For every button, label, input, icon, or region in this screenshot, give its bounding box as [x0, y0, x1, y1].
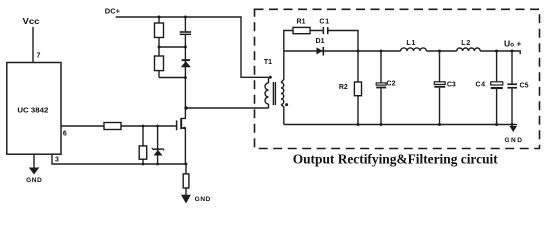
svg-text:D1: D1 [316, 38, 325, 45]
svg-text:C4: C4 [476, 81, 486, 88]
svg-text:UC 3842: UC 3842 [17, 105, 48, 114]
svg-text:GND: GND [26, 177, 42, 184]
svg-text:Output Rectifying&Filtering ci: Output Rectifying&Filtering circuit [293, 151, 499, 166]
svg-text:DC+: DC+ [105, 6, 121, 15]
svg-text:C2: C2 [387, 81, 396, 88]
svg-text:GND: GND [505, 137, 523, 144]
svg-text:6: 6 [63, 131, 67, 138]
svg-text:C1: C1 [319, 19, 330, 26]
svg-text:L1: L1 [406, 40, 416, 47]
svg-text:R2: R2 [339, 84, 348, 91]
svg-text:C3: C3 [447, 81, 456, 88]
svg-text:3: 3 [55, 157, 59, 164]
svg-text:GND: GND [195, 196, 211, 203]
svg-text:7: 7 [37, 52, 41, 59]
svg-text:Vcc: Vcc [23, 17, 41, 26]
svg-text:T1: T1 [264, 59, 272, 66]
svg-text:R1: R1 [297, 19, 306, 26]
svg-text:L2: L2 [461, 40, 471, 47]
svg-text:C5: C5 [520, 82, 529, 89]
